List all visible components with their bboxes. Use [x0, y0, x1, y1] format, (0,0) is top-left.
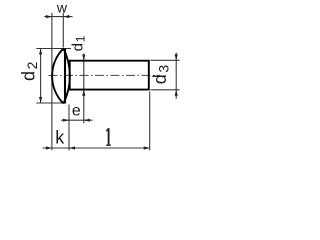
svg-text:k: k — [55, 128, 65, 148]
svg-text:d2: d2 — [18, 61, 40, 81]
svg-text:d1: d1 — [69, 35, 87, 51]
svg-text:e: e — [72, 103, 81, 120]
svg-text:w: w — [56, 0, 68, 15]
svg-text:d3: d3 — [150, 65, 172, 85]
